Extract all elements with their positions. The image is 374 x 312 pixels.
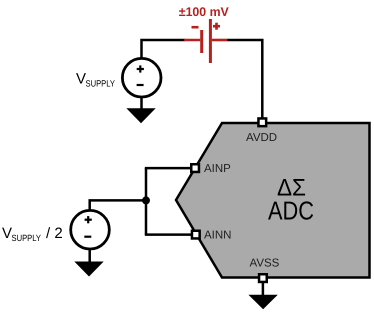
wire branch to AINN xyxy=(145,233,192,236)
wire V_SUPPLY/2 top to junction xyxy=(90,200,144,210)
label V_SUPPLY / 2 xyxy=(2,225,63,243)
svg-text:SUPPLY: SUPPLY xyxy=(86,78,116,88)
wire battery to AVDD pin xyxy=(227,40,262,118)
wire V_SUPPLY bottom to ground xyxy=(140,97,143,110)
svg-text:AVDD: AVDD xyxy=(246,132,277,144)
svg-text:ADC: ADC xyxy=(268,196,314,226)
svg-text:V: V xyxy=(76,71,86,88)
pin AINN xyxy=(192,231,200,239)
voltage source V_SUPPLY xyxy=(122,58,161,97)
wire V_SUPPLY top to battery xyxy=(142,40,186,58)
voltage source V_SUPPLY/2 xyxy=(71,210,110,249)
wire vertical branch AINP-AINN xyxy=(145,168,148,235)
label V_SUPPLY xyxy=(76,71,115,89)
svg-text:V: V xyxy=(2,225,12,242)
wire AVSS pin to ground xyxy=(262,283,265,296)
svg-text:SUPPLY: SUPPLY xyxy=(12,233,42,243)
svg-text:±100 mV: ±100 mV xyxy=(179,5,230,19)
pin AVDD xyxy=(258,118,266,126)
junction xyxy=(142,196,150,204)
wire branch to AINP xyxy=(145,167,191,170)
svg-text:AVSS: AVSS xyxy=(250,257,280,269)
pin AINP xyxy=(191,164,199,172)
battery ±100 mV xyxy=(184,19,227,63)
svg-text:AINP: AINP xyxy=(204,163,231,175)
ground (V_SUPPLY) xyxy=(126,108,155,123)
ADC block (ΔΣ ADC) xyxy=(176,123,370,278)
ground (AVSS) xyxy=(248,295,277,310)
wire V_SUPPLY/2 bottom to ground xyxy=(88,250,91,263)
svg-text:/ 2: / 2 xyxy=(46,225,63,242)
pin AVSS xyxy=(259,274,267,282)
svg-text:AINN: AINN xyxy=(204,229,231,241)
ground (V_SUPPLY/2) xyxy=(74,262,103,277)
